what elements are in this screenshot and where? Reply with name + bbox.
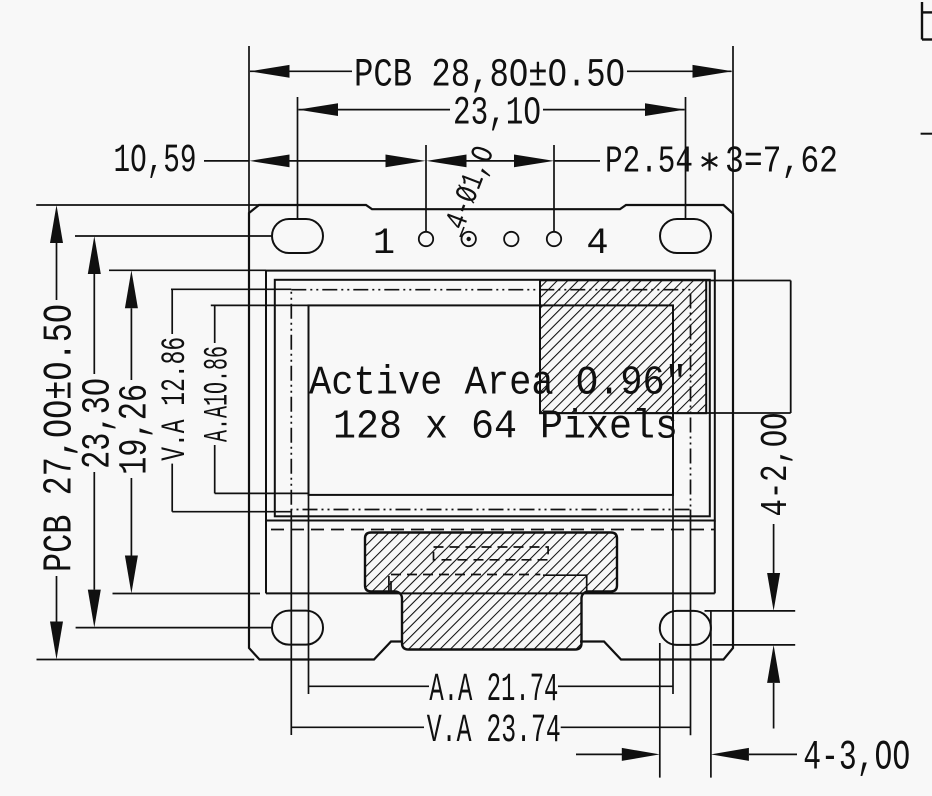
svg-text:3=7,62: 3=7,62 — [725, 141, 838, 184]
svg-text:1: 1 — [373, 223, 395, 265]
svg-text:128 x 64 Pixels: 128 x 64 Pixels — [333, 405, 678, 451]
svg-text:1O,59: 1O,59 — [114, 139, 197, 184]
svg-text:V.A 23.74: V.A 23.74 — [427, 709, 561, 754]
svg-text:A.A1O.86: A.A1O.86 — [199, 346, 237, 442]
svg-text:A.A 21.74: A.A 21.74 — [429, 668, 558, 713]
svg-text:P2.54: P2.54 — [605, 141, 693, 184]
svg-text:23,1O: 23,1O — [453, 91, 541, 136]
svg-text:4-3,OO: 4-3,OO — [803, 734, 910, 782]
svg-text:Active Area O.96″: Active Area O.96″ — [309, 360, 687, 406]
svg-text:19,26: 19,26 — [113, 384, 158, 475]
svg-text:4: 4 — [586, 223, 608, 265]
svg-text:V.A 12.86: V.A 12.86 — [157, 337, 195, 461]
svg-text:4-2,OO: 4-2,OO — [755, 413, 798, 517]
